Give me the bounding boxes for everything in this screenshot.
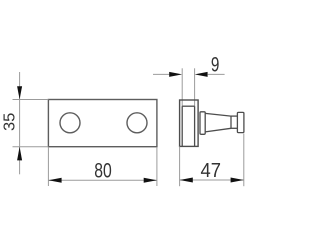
dim 47 extension line right — [243, 134, 245, 187]
side plate inner top edge — [182, 105, 194, 107]
dim 35 extension line top — [13, 99, 49, 101]
svg-text:35: 35 — [1, 113, 18, 131]
hook base flange — [200, 112, 205, 135]
dim 47 extension line left (wall plane) — [179, 146, 181, 186]
hook cone end vertical — [230, 116, 232, 128]
dim 9 left tail — [153, 73, 169, 75]
dim 47 arrow right — [231, 178, 244, 183]
side plate outer outline — [180, 100, 199, 146]
screw hole right — [127, 113, 147, 133]
dim 35 arrow bottom — [17, 147, 22, 161]
svg-text:9: 9 — [211, 54, 220, 77]
hook neck bottom edge — [231, 127, 237, 129]
dim 35 dimension line — [19, 72, 21, 174]
dim 9 arrow left — [169, 72, 182, 77]
dim 35 arrow top — [17, 86, 22, 99]
dim 9 extension line left — [181, 68, 183, 106]
hook cone top edge — [205, 113, 231, 116]
dim 9 extension line right — [194, 68, 196, 106]
svg-text:80: 80 — [94, 160, 112, 183]
dim 47 dimension line — [180, 179, 244, 181]
dim 9 arrow right — [195, 72, 208, 77]
svg-text:47: 47 — [201, 159, 222, 182]
hook neck top edge — [231, 115, 237, 117]
side plate inner left edge — [181, 106, 183, 146]
dim 9 right tail — [208, 73, 225, 75]
dim 80 dimension line — [48, 179, 156, 181]
screw hole left — [60, 113, 80, 133]
dim 80 extension line left — [47, 148, 49, 186]
side plate inner right edge — [194, 106, 196, 146]
dim 80 arrow right — [144, 178, 157, 183]
hook end cap — [237, 112, 244, 132]
front plate outline — [48, 100, 156, 147]
dim 80 arrow left — [48, 178, 61, 183]
dim 80 extension line right — [156, 148, 158, 186]
hook cone bottom edge — [205, 128, 231, 132]
dim 47 arrow left — [180, 178, 193, 183]
dim 35 extension line bottom — [13, 146, 49, 148]
